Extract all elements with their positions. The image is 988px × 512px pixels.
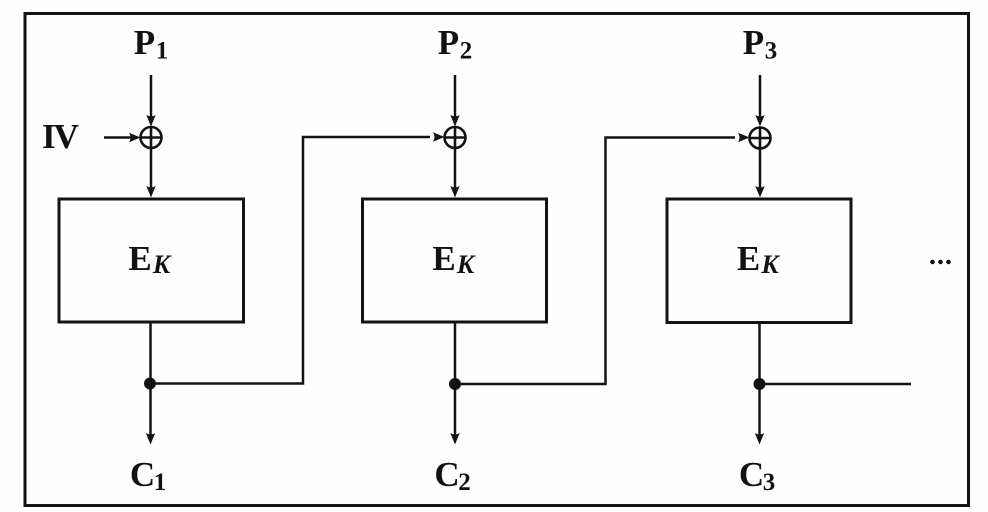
svg-text:E: E: [737, 239, 760, 278]
svg-text:1: 1: [156, 38, 169, 65]
svg-text:2: 2: [458, 469, 471, 496]
block cipher box E_K 2: [363, 199, 547, 322]
node C3 label: [739, 455, 775, 496]
wire junction1 to C1: [149, 384, 152, 436]
svg-text:P: P: [743, 23, 764, 62]
node P3 label: [743, 23, 777, 65]
wire junction3 continuation: [760, 383, 912, 386]
wire junction3 to C3: [758, 384, 761, 435]
wire P2 to XOR2: [454, 75, 457, 118]
svg-text:3: 3: [765, 38, 778, 65]
svg-text:1: 1: [154, 469, 167, 496]
wire box1 to junction: [149, 322, 152, 384]
node IV label: [42, 117, 79, 156]
node C1 label: [130, 455, 166, 496]
node P2 label: [438, 23, 472, 65]
XOR gate 3: [750, 128, 771, 149]
svg-text:K: K: [152, 250, 172, 279]
svg-text:K: K: [456, 250, 476, 279]
wire P1 to XOR1: [150, 75, 153, 118]
junction node 3: [754, 378, 766, 390]
svg-text:3: 3: [763, 469, 776, 496]
wire IV to XOR1: [104, 136, 131, 139]
junction node 1: [144, 378, 156, 390]
wire junction2 to C2: [454, 384, 457, 435]
wire XOR2 to box E_K 2: [454, 148, 457, 189]
XOR gate 2: [445, 127, 466, 148]
svg-text:E: E: [128, 239, 151, 278]
wire box2 to junction: [454, 322, 457, 384]
feedback wire junction2 to XOR3: [455, 138, 735, 385]
node C2 label: [434, 455, 470, 496]
svg-text:IV: IV: [42, 117, 79, 156]
svg-text:C: C: [739, 455, 764, 494]
svg-text:C: C: [130, 455, 155, 494]
node P1 label: [134, 23, 168, 65]
wire XOR3 to box E_K 3: [759, 149, 762, 190]
wire P3 to XOR3: [759, 75, 762, 118]
junction node 2: [449, 378, 461, 390]
svg-text:P: P: [438, 23, 459, 62]
block cipher box E_K 1: [59, 199, 244, 322]
wire XOR1 to box E_K 1: [150, 148, 153, 189]
svg-text:2: 2: [460, 38, 473, 65]
svg-text:K: K: [760, 250, 780, 279]
ellipsis continuation dots: [930, 260, 951, 265]
svg-text:E: E: [432, 239, 455, 278]
XOR gate 1: [141, 127, 162, 148]
wire box3 to junction: [758, 323, 761, 385]
block cipher box E_K 3: [667, 199, 851, 323]
svg-text:C: C: [434, 455, 459, 494]
svg-text:P: P: [134, 23, 155, 62]
feedback wire junction1 to XOR2: [150, 137, 430, 384]
